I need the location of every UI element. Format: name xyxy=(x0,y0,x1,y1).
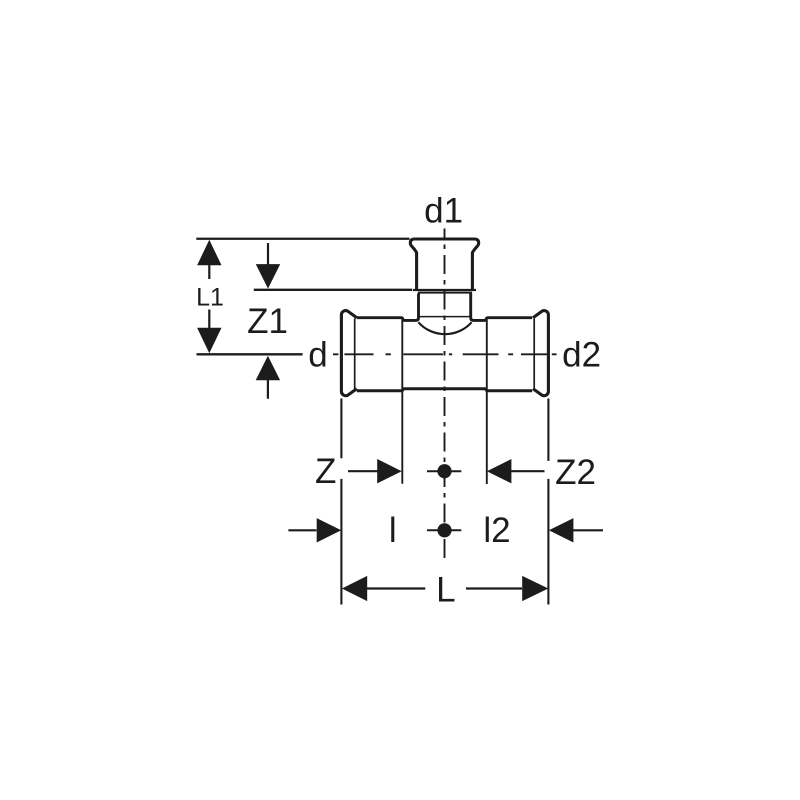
svg-text:Z: Z xyxy=(315,452,336,491)
branch tube right wall xyxy=(471,294,533,321)
dot bar Z row xyxy=(427,470,461,472)
Z1 arrow tails xyxy=(267,243,269,399)
svg-text:l2: l2 xyxy=(483,511,510,550)
Z2 left arrowhead xyxy=(487,459,512,483)
svg-text:d: d xyxy=(308,335,327,374)
branch flare and socket walls xyxy=(410,239,478,291)
branch socket step xyxy=(413,289,476,291)
Z2 dimension line xyxy=(511,470,545,472)
branch tube left wall xyxy=(357,294,419,321)
l dimension line xyxy=(288,529,316,531)
branch socket depth thin line xyxy=(418,292,472,294)
vertical centerline dash-dot xyxy=(444,229,446,560)
body bottom contour xyxy=(357,389,532,391)
svg-text:L: L xyxy=(436,571,455,610)
L1 arrow tails xyxy=(208,265,210,329)
svg-text:l: l xyxy=(389,511,397,550)
svg-text:Z1: Z1 xyxy=(247,302,288,341)
L1 down arrowhead xyxy=(197,328,221,354)
svg-text:d2: d2 xyxy=(562,335,601,374)
crotch arc xyxy=(418,322,471,334)
L right arrowhead xyxy=(522,576,548,601)
left bead xyxy=(341,311,356,396)
l2 dimension line xyxy=(573,529,603,531)
dot bar l row xyxy=(427,529,461,531)
left bead extension line xyxy=(340,399,342,605)
left socket depth line + extension xyxy=(401,319,403,484)
right bead xyxy=(533,311,548,396)
l right arrowhead xyxy=(317,518,342,542)
horizontal centerline dash-dot xyxy=(333,353,557,355)
Z right arrowhead xyxy=(377,459,402,483)
svg-text:L1: L1 xyxy=(196,284,224,312)
Z dimension line xyxy=(348,470,378,472)
svg-text:d1: d1 xyxy=(424,192,463,231)
L dimension lines xyxy=(367,587,522,589)
left bead inner line xyxy=(354,319,356,391)
dot on Z row xyxy=(437,464,451,478)
Z1 up arrowhead xyxy=(256,356,280,381)
L left arrowhead xyxy=(342,576,367,601)
L1 up arrowhead xyxy=(197,240,221,265)
right bead extension line xyxy=(547,399,549,605)
branch root thin line xyxy=(418,316,472,318)
right bead inner line xyxy=(533,319,535,391)
top extension line xyxy=(196,238,409,240)
right socket depth line + extension xyxy=(486,319,488,484)
Z1 down arrowhead xyxy=(256,264,280,289)
horizontal centerline left solid xyxy=(197,353,303,355)
Z1 reference line xyxy=(254,289,412,291)
l2 left arrowhead xyxy=(549,518,574,542)
svg-text:Z2: Z2 xyxy=(555,453,596,492)
dot on l row xyxy=(437,523,451,537)
